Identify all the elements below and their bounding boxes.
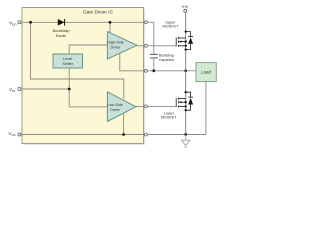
transistor Q2 lower MOSFET (176, 92, 193, 110)
gate bar (175, 98, 177, 107)
capacitor C1 bootstrap: top lead (153, 22, 155, 54)
node junction HS supply (109, 21, 112, 24)
wire rail lower (185, 71, 187, 135)
channel segments (178, 98, 180, 100)
gate bar (175, 37, 177, 46)
drain stub (179, 98, 186, 100)
source stub (179, 105, 186, 107)
terminal HO (right edge) (144, 44, 147, 47)
svg-text:Bootstrap: Bootstrap (159, 53, 175, 57)
drain stub (179, 37, 186, 39)
wire LO gate wire (136, 105, 176, 107)
svg-text:Load: Load (201, 70, 211, 75)
svg-text:Capacitor: Capacitor (159, 58, 176, 62)
terminal VIN (18, 88, 21, 91)
svg-text:VSS: VSS (8, 131, 15, 137)
svg-text:Driver: Driver (111, 46, 122, 50)
svg-text:MOSFET: MOSFET (162, 25, 179, 29)
wire VIN horizontal (21, 88, 69, 90)
svg-text:+HV: +HV (181, 5, 189, 9)
svg-text:Diode: Diode (56, 33, 67, 38)
wire HV rail upper (185, 12, 187, 70)
svg-text:MOSFET: MOSFET (161, 116, 178, 120)
channel segments (178, 37, 180, 39)
node junction VIN (68, 88, 71, 91)
body stub with arrow (179, 101, 186, 103)
body stub with arrow (179, 41, 186, 43)
wire VDD branch down x=30.5 (31, 22, 124, 99)
body diode loop (186, 92, 191, 97)
gate driver IC box U1 (22, 8, 144, 144)
wire VDD horizontal y=22.3 (21, 21, 154, 23)
wire HO gate wire (137, 45, 176, 47)
capacitor C1 bottom lead (153, 58, 155, 70)
gate driver IC box shadow (24, 9, 146, 145)
terminal VB (right edge) (144, 21, 147, 24)
source stub (179, 45, 186, 47)
wire LS ground stub (123, 113, 125, 134)
transistor Q1 upper MOSFET (176, 32, 193, 50)
load RL (196, 63, 216, 82)
svg-text:VDD: VDD (9, 20, 17, 26)
svg-text:VIN: VIN (9, 87, 15, 93)
svg-text:Driver: Driver (110, 108, 121, 112)
node junction VS rail (184, 69, 187, 72)
wire level shifter output to HS input (69, 45, 107, 54)
wire level shifter input / VIN vertical (69, 68, 107, 107)
svg-text:Gate Driver IC: Gate Driver IC (83, 10, 114, 15)
node junction ground (184, 133, 187, 136)
svg-text:Level: Level (63, 57, 72, 61)
terminal +HV (184, 9, 187, 12)
op-amp low-side driver (107, 92, 136, 122)
terminal VDD (18, 21, 21, 24)
terminal VSS right (right edge) (144, 133, 147, 136)
op-amp high-side driver (107, 32, 137, 60)
terminal VSS (18, 133, 21, 136)
diode D1 bootstrap (58, 19, 65, 26)
svg-text:High-Side: High-Side (107, 41, 124, 45)
node junction cap bottom / VS (152, 69, 155, 72)
terminal LO (right edge) (144, 105, 147, 108)
node junction LS ground (122, 133, 125, 136)
svg-text:Shifter: Shifter (62, 62, 74, 66)
level shifter U2 (53, 54, 83, 68)
svg-text:Low-Side: Low-Side (107, 103, 123, 107)
wire load bottom (205, 82, 207, 135)
node junctions Q2 (185, 91, 187, 93)
wire VSS horizontal (21, 134, 206, 136)
body diode loop (186, 32, 191, 37)
wire HS reference to VS (120, 53, 196, 70)
node junction VDD branch (29, 21, 32, 24)
capacitor C1 plates (150, 53, 158, 55)
ground (182, 135, 190, 148)
node junctions Q1 (185, 30, 187, 32)
wire HS driver top supply stub (109, 22, 111, 33)
terminal VS (right edge) (144, 69, 147, 72)
